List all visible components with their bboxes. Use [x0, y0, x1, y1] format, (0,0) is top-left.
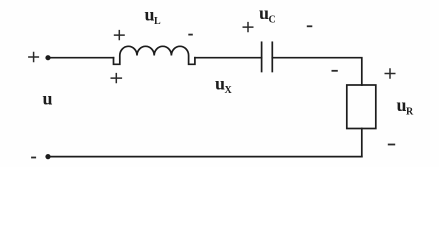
wire inductor to capacitor [195, 57, 262, 59]
- sign uL right [188, 34, 193, 36]
- sign uX right [332, 70, 338, 72]
resistor R body [347, 85, 376, 129]
node + terminal dot (top-left) [45, 55, 50, 60]
- sign source bottom-left [31, 157, 36, 159]
capacitor C plate left [261, 42, 263, 71]
wire bottom return [48, 156, 362, 158]
+ sign uX left (below inductor) [111, 73, 123, 83]
svg-text:u: u [43, 89, 53, 109]
+ sign source top-left [28, 52, 39, 62]
wire source top to inductor [48, 57, 114, 59]
+ sign uR top [385, 68, 396, 78]
+ sign uL left [114, 30, 125, 40]
capacitor C plate right [271, 42, 273, 71]
inductor L [114, 46, 195, 64]
+ sign uC left [243, 22, 254, 32]
wire capacitor to top-right corner [272, 58, 362, 85]
svg-text:uX: uX [215, 74, 233, 97]
node - terminal dot (bottom-left) [45, 154, 50, 159]
- sign uC right [307, 25, 313, 27]
wire resistor to bottom [361, 129, 363, 157]
svg-text:uL: uL [145, 5, 162, 28]
- sign uR bottom [388, 144, 395, 146]
svg-text:uR: uR [397, 95, 415, 118]
svg-text:uC: uC [259, 3, 276, 26]
